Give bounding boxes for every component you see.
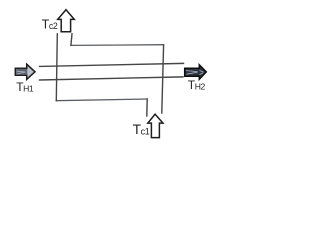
Tc2 pipe right wall xyxy=(71,34,72,46)
svg-text:TH2: TH2 xyxy=(188,78,206,92)
inner tube top wall xyxy=(40,63,184,66)
inner tube bottom wall xyxy=(40,77,184,80)
shell right end cap / Tc1 pipe right wall xyxy=(162,45,164,113)
svg-text:TH1: TH1 xyxy=(16,80,34,94)
cold outlet block arrow Tc2 xyxy=(58,10,75,32)
hot outlet block arrow TH2 xyxy=(185,65,207,80)
svg-text:Tc2: Tc2 xyxy=(42,18,58,32)
shell bottom wall xyxy=(56,99,147,101)
Tc1 pipe left wall xyxy=(146,99,148,116)
hot inlet block arrow TH1 xyxy=(15,64,35,79)
shell top wall xyxy=(71,44,163,47)
shell left end cap / Tc2 pipe left wall xyxy=(56,34,57,101)
cold inlet block arrow Tc1 xyxy=(148,114,163,137)
svg-text:Tc1: Tc1 xyxy=(133,122,150,137)
